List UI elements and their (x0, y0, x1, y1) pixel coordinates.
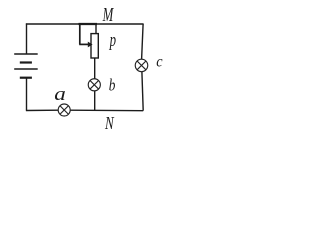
svg-text:M: M (102, 3, 114, 26)
svg-text:c: c (156, 54, 163, 71)
svg-text:a: a (54, 83, 66, 105)
svg-text:b: b (109, 77, 116, 95)
svg-text:p: p (109, 28, 116, 50)
svg-text:N: N (104, 114, 115, 133)
